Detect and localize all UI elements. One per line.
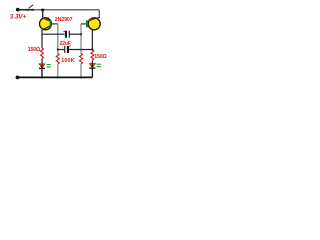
svg-text:150Ω: 150Ω (94, 54, 106, 60)
svg-text:100K: 100K (61, 58, 74, 64)
svg-text:2N2907: 2N2907 (55, 17, 73, 23)
svg-text:22uF: 22uF (60, 41, 71, 47)
svg-text:150Ω: 150Ω (28, 47, 40, 53)
svg-text:3.3V+: 3.3V+ (10, 14, 27, 21)
